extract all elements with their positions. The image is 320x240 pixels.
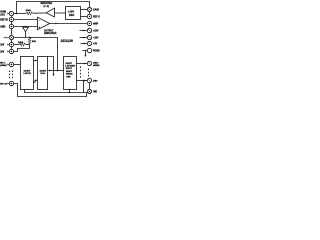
wire R1-R2 link — [89, 12, 91, 15]
svg-text:BIT 18: BIT 18 — [0, 84, 7, 86]
wire L2 to amp — [14, 19, 38, 21]
svg-text:LATCH: LATCH — [24, 72, 32, 75]
wire L3 to amp — [14, 26, 38, 28]
svg-text:20kΩ: 20kΩ — [26, 9, 32, 12]
wire R9 down to bus — [83, 81, 85, 93]
svg-text:INPUT: INPUT — [66, 68, 73, 70]
junction — [16, 13, 17, 14]
resistor 10k horizontal — [19, 43, 26, 46]
svg-text:PGND: PGND — [93, 51, 100, 53]
svg-text:INVERTER: INVERTER — [41, 3, 53, 5]
wire L5 — [14, 44, 19, 46]
wire A to B — [34, 60, 37, 62]
svg-text:GAIN: GAIN — [93, 9, 99, 12]
svg-text:REF O: REF O — [93, 17, 100, 19]
register box C — [64, 57, 77, 90]
wire L2-L3 link — [11, 22, 13, 25]
resistor 5k vertical — [28, 38, 31, 45]
svg-text:18-BIT: 18-BIT — [66, 63, 73, 65]
node R4 pin +15V — [87, 28, 91, 32]
latch box A — [21, 57, 34, 90]
op-amp U2 inverter — [46, 8, 54, 17]
node L3 pin — [9, 24, 13, 28]
wire ref to R1 — [81, 9, 88, 11]
wire R9-R10 link — [89, 83, 91, 90]
junction — [25, 26, 26, 27]
wire ref to R2 — [81, 16, 88, 18]
wire B top tap — [48, 57, 54, 75]
wire bottom bus — [25, 90, 88, 93]
svg-text:(MSB): (MSB) — [93, 65, 100, 67]
wire C to R8 — [77, 63, 88, 65]
svg-text:(×−1): (×−1) — [44, 5, 50, 8]
wire L3-L4 link — [11, 29, 13, 36]
svg-text:−15V: −15V — [93, 38, 99, 40]
svg-text:DAC: DAC — [41, 72, 46, 75]
svg-text:SHIFT: SHIFT — [66, 71, 73, 73]
wire L8 bottom route — [14, 84, 87, 97]
svg-text:AMPLIFIER: AMPLIFIER — [44, 32, 57, 35]
svg-text:+10V: +10V — [68, 9, 75, 13]
svg-text:DB0: DB0 — [93, 80, 98, 82]
svg-text:GND: GND — [0, 27, 5, 29]
node R5 pin -15V — [87, 35, 91, 39]
wire A to B lower — [34, 80, 37, 82]
dashed pin ellipsis left — [9, 71, 11, 80]
node L2 pin — [9, 17, 13, 21]
arrow L5 — [7, 44, 9, 46]
svg-text:REF IN: REF IN — [0, 20, 8, 22]
arrow on output wire — [56, 23, 58, 25]
svg-text:ADJ: ADJ — [0, 13, 5, 16]
svg-text:REF: REF — [69, 13, 75, 17]
svg-text:GAIN: GAIN — [0, 11, 6, 14]
op-amp U1 output amplifier — [38, 17, 50, 29]
svg-text:(MSB): (MSB) — [0, 65, 7, 67]
wire L7 to A — [14, 64, 21, 66]
node R8 pin db msb — [87, 61, 91, 65]
svg-text:20V: 20V — [0, 52, 5, 54]
node R7 pin power gnd — [87, 48, 91, 52]
junction — [29, 37, 30, 38]
svg-text:5kΩ: 5kΩ — [32, 40, 36, 43]
svg-text:AMP: AMP — [93, 23, 99, 26]
node L1 pin — [9, 11, 13, 15]
node R2 pin ref out — [87, 14, 91, 18]
svg-text:REGIS: REGIS — [66, 74, 73, 76]
svg-text:10kΩ: 10kΩ — [18, 41, 24, 44]
DAC box B — [38, 57, 48, 90]
wire L4 summing node — [14, 38, 58, 71]
node L6 pin — [9, 49, 13, 53]
wire buffer to node line — [25, 32, 27, 38]
wire amp output to pin — [50, 23, 88, 25]
10V reference box — [66, 7, 81, 20]
svg-text:-: - — [39, 19, 40, 23]
node L7 pin bit1 — [9, 62, 13, 66]
node R6 pin +5V — [87, 41, 91, 45]
node L8 pin bit18 — [9, 81, 13, 85]
svg-text:WR: WR — [93, 92, 97, 94]
wire C bottom to bus — [69, 90, 71, 93]
wire L1 to inverter — [14, 13, 26, 15]
buffer triangle feedback — [23, 27, 29, 32]
label L4 squiggle — [4, 37, 9, 38]
node L4 pin — [9, 35, 13, 39]
wire L4-L5 link — [11, 40, 13, 43]
wire inverter to ref box — [55, 12, 66, 14]
wire B to C — [50, 70, 64, 72]
junction — [57, 70, 59, 72]
node R10 pin wr — [87, 89, 91, 93]
wire L1-L2 link — [11, 16, 13, 18]
node R1 pin gain — [87, 7, 91, 11]
node R3 pin amp out — [87, 21, 91, 25]
svg-text:LATCHED: LATCHED — [65, 65, 75, 68]
dashed pin ellipsis right inner — [80, 67, 82, 79]
wire C to R9 — [77, 80, 88, 82]
dashed pin ellipsis right outer — [88, 69, 90, 78]
resistor 20k — [26, 12, 33, 15]
svg-text:10V: 10V — [0, 45, 5, 47]
arrow L6 — [7, 51, 9, 53]
node L5 pin — [9, 42, 13, 46]
wire top bus — [17, 2, 90, 14]
svg-text:+5V: +5V — [93, 44, 98, 46]
node R9 pin db lsb — [87, 78, 91, 82]
wire L5-L6 link — [11, 47, 13, 50]
svg-text:+15V: +15V — [93, 31, 99, 33]
wire L6 jog — [14, 45, 30, 52]
svg-text:TER: TER — [66, 76, 71, 78]
ground arrow — [85, 51, 87, 56]
svg-text:AD1139: AD1139 — [61, 39, 73, 43]
